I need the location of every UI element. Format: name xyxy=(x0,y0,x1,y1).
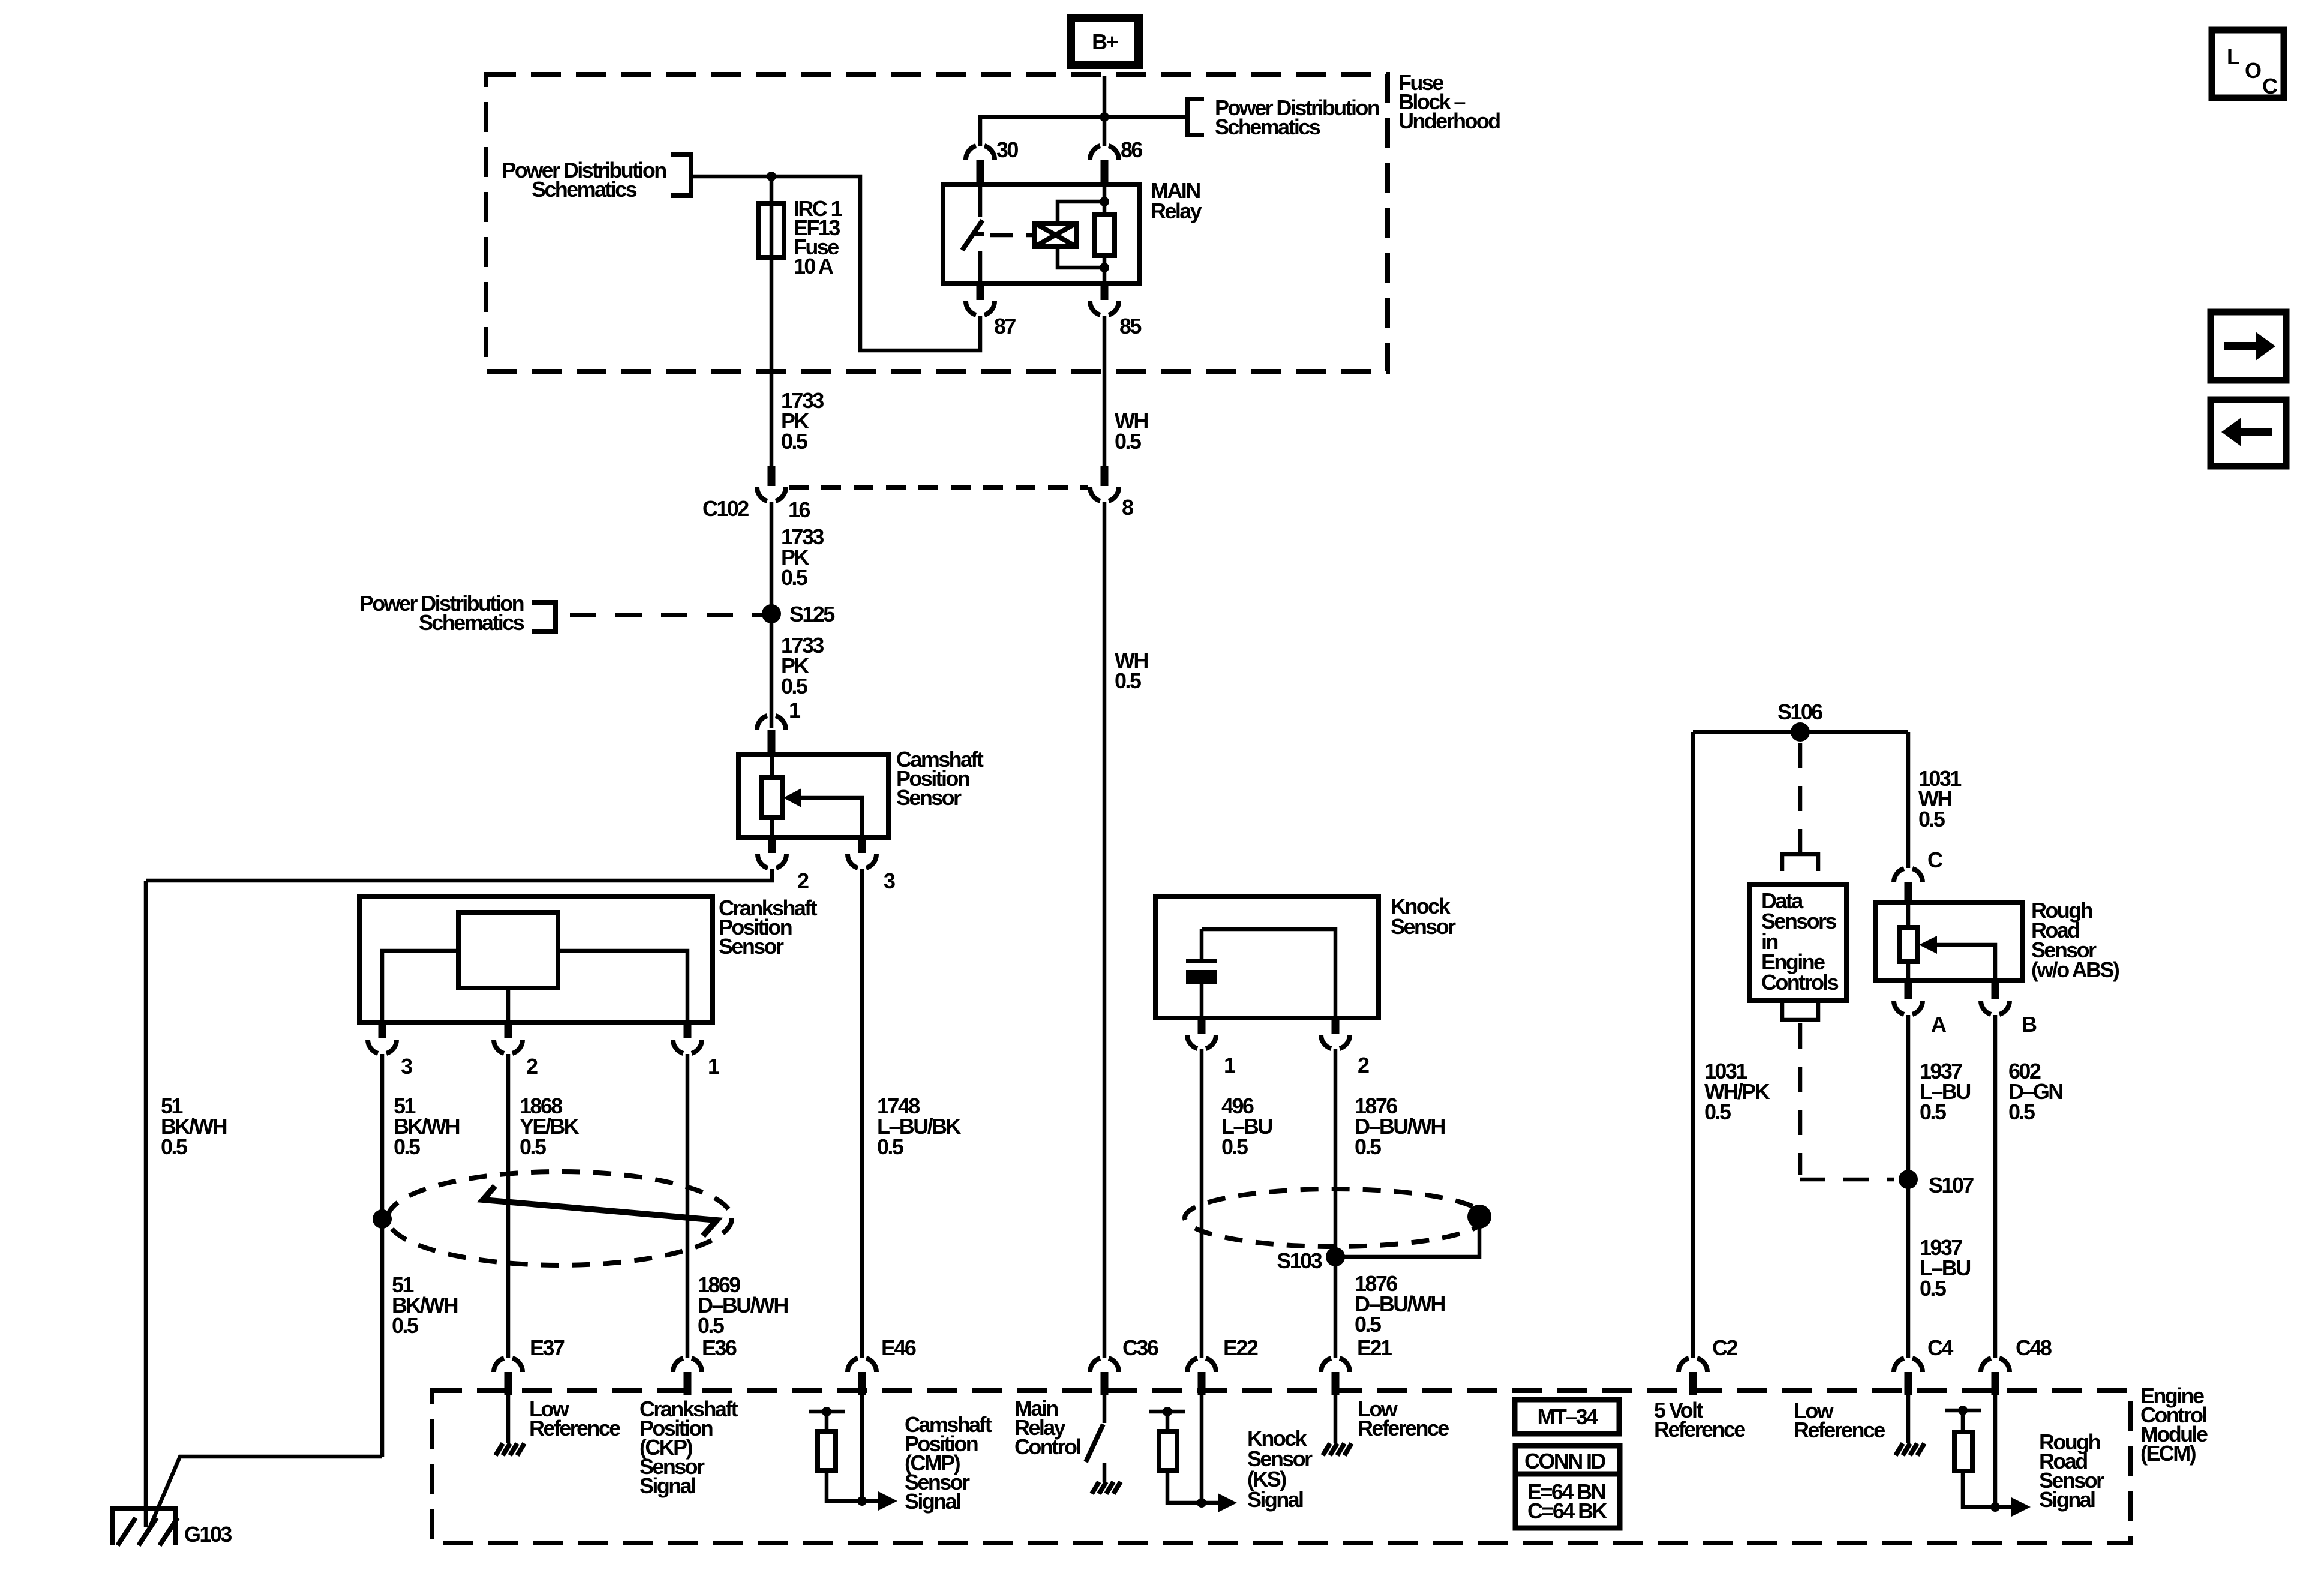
svg-text:B+: B+ xyxy=(1092,29,1118,54)
twisted pair zigzag arrow CKP xyxy=(483,1186,717,1236)
svg-text:Schematics: Schematics xyxy=(1215,115,1320,139)
svg-text:Relay: Relay xyxy=(1151,199,1202,223)
resistor rough road internal xyxy=(1906,902,1911,927)
legend left arrow box xyxy=(2211,400,2286,466)
svg-text:Schematics: Schematics xyxy=(419,610,524,635)
bracket data sensors top xyxy=(1782,854,1818,871)
svg-text:3: 3 xyxy=(884,869,895,893)
pin 3 connector camshaft xyxy=(858,837,866,853)
pin A connector rough road xyxy=(1905,980,1912,999)
ECM dashed border xyxy=(432,1391,2131,1543)
pin 16 of C102 xyxy=(768,466,776,486)
wire junction to right bracket xyxy=(1104,115,1187,119)
wire CKP internal middle xyxy=(506,988,511,1023)
splice S103 xyxy=(1326,1247,1345,1266)
svg-text:C: C xyxy=(1927,848,1943,872)
svg-text:Reference: Reference xyxy=(1794,1418,1885,1442)
svg-text:S125: S125 xyxy=(789,602,835,626)
legend right arrow box xyxy=(2211,312,2286,380)
svg-text:Reference: Reference xyxy=(1358,1416,1449,1440)
svg-text:S107: S107 xyxy=(1929,1173,1974,1197)
fuse IRC 1 EF13 10A xyxy=(758,203,784,257)
svg-text:0.5: 0.5 xyxy=(781,674,808,698)
bracket data sensors bottom xyxy=(1782,1003,1818,1020)
battery feed B+ symbol xyxy=(1071,18,1139,65)
arrow KS signal xyxy=(1202,1501,1219,1505)
relay switch contact xyxy=(978,184,983,217)
ECM internal pullup E46 xyxy=(860,1395,864,1501)
fuse block underhood dashed border xyxy=(486,74,1388,371)
pin 2 connector CKP xyxy=(505,1023,512,1038)
pin 86 connector xyxy=(1103,117,1107,146)
svg-text:Reference: Reference xyxy=(529,1416,620,1440)
wire 1031 WH to rough road sensor xyxy=(1906,732,1911,868)
svg-text:0.5: 0.5 xyxy=(1355,1134,1382,1159)
ground G103 xyxy=(110,1506,178,1545)
svg-text:E37: E37 xyxy=(530,1335,565,1360)
svg-text:0.5: 0.5 xyxy=(1221,1134,1248,1159)
pin 1 connector camshaft sensor xyxy=(757,716,786,730)
svg-text:Control: Control xyxy=(1014,1434,1080,1459)
svg-text:Controls: Controls xyxy=(1761,970,1839,995)
pin 2 connector knock xyxy=(1332,1018,1340,1034)
svg-text:S103: S103 xyxy=(1277,1248,1322,1273)
wire CKP pin3 51 BK/WH xyxy=(380,1054,385,1457)
svg-text:0.5: 0.5 xyxy=(394,1134,421,1159)
svg-text:Schematics: Schematics xyxy=(532,177,637,202)
ECM internal ground E37 xyxy=(506,1395,511,1443)
svg-text:Sensor: Sensor xyxy=(896,785,962,810)
wire dashed to S125 xyxy=(570,613,762,617)
svg-text:8: 8 xyxy=(1122,495,1133,520)
svg-text:10 A: 10 A xyxy=(794,254,834,278)
wire 51 BK/WH left run to G103 xyxy=(144,881,148,1527)
svg-text:S106: S106 xyxy=(1777,700,1822,724)
pin C connector rough road xyxy=(1894,869,1923,882)
svg-text:O: O xyxy=(2245,58,2261,83)
reference box MT-34 xyxy=(1515,1400,1619,1434)
pin C4 connector xyxy=(1894,1358,1923,1372)
sensor Knock Sensor box xyxy=(1155,896,1379,1018)
svg-text:Signal: Signal xyxy=(905,1489,960,1514)
svg-text:G103: G103 xyxy=(184,1522,232,1547)
svg-text:CONN ID: CONN ID xyxy=(1524,1449,1605,1473)
knock element xyxy=(1186,959,1217,963)
pin 87 connector xyxy=(977,283,984,300)
wire 86 pin inside relay xyxy=(1103,184,1107,215)
splice S125 xyxy=(762,604,781,623)
svg-text:0.5: 0.5 xyxy=(161,1134,188,1159)
wire S103 to E21 xyxy=(1334,1257,1338,1358)
svg-text:16: 16 xyxy=(788,497,810,522)
svg-text:0.5: 0.5 xyxy=(1920,1276,1947,1301)
node fuse junction dot xyxy=(767,172,776,181)
svg-text:Reference: Reference xyxy=(1654,1417,1745,1442)
pin 1 connector CKP xyxy=(684,1023,692,1038)
svg-text:(ECM): (ECM) xyxy=(2140,1441,2196,1466)
svg-text:(w/o ABS): (w/o ABS) xyxy=(2031,957,2119,982)
svg-text:0.5: 0.5 xyxy=(1704,1100,1731,1124)
svg-text:0.5: 0.5 xyxy=(392,1313,419,1338)
node coil bottom junction xyxy=(1100,263,1109,272)
svg-text:Signal: Signal xyxy=(2039,1487,2095,1512)
wire camshaft pin2 low reference to left xyxy=(146,869,772,881)
wire knock internal loop xyxy=(1202,929,1335,1018)
wire pin3 to ground run xyxy=(150,1457,382,1527)
pin B connector rough road xyxy=(1992,980,1999,999)
svg-text:0.5: 0.5 xyxy=(1115,668,1142,693)
svg-text:30: 30 xyxy=(996,137,1018,162)
arrow rough road wiper xyxy=(1936,945,1995,980)
wire 1876 D-BU/WH to S103 xyxy=(1334,1049,1338,1257)
svg-text:87: 87 xyxy=(994,314,1016,338)
svg-text:0.5: 0.5 xyxy=(1918,807,1945,831)
connector C102 dashed line xyxy=(789,485,1088,490)
svg-text:1: 1 xyxy=(1224,1053,1236,1077)
pin 30 connector xyxy=(966,146,995,160)
twisted pair ellipse CKP xyxy=(388,1172,732,1265)
wire coil top to 86 wire xyxy=(1058,202,1104,223)
pin C48 connector xyxy=(1981,1358,2010,1372)
sensor Rough Road Sensor box xyxy=(1876,902,2022,980)
node splice dot on pin3 wire xyxy=(373,1209,392,1229)
svg-text:0.5: 0.5 xyxy=(877,1134,904,1159)
svg-text:E46: E46 xyxy=(881,1335,916,1360)
svg-text:L: L xyxy=(2227,44,2239,69)
svg-text:0.5: 0.5 xyxy=(1355,1312,1382,1337)
svg-text:Signal: Signal xyxy=(1247,1487,1303,1512)
bracket Power Distribution Schematics (left) xyxy=(671,155,691,196)
svg-text:MT–34: MT–34 xyxy=(1537,1404,1598,1429)
splice S107 xyxy=(1899,1170,1918,1189)
pin C2 connector xyxy=(1679,1358,1707,1372)
svg-text:2: 2 xyxy=(797,869,809,893)
wire CKP pin1 1869 D-BU/WH to E36 xyxy=(686,1054,690,1358)
svg-text:0.5: 0.5 xyxy=(520,1134,547,1159)
node shield dot knock xyxy=(1467,1205,1491,1229)
arrow rough road signal xyxy=(1995,1505,2013,1509)
pin E37 connector xyxy=(494,1358,523,1372)
node coil top junction xyxy=(1100,197,1109,206)
svg-text:85: 85 xyxy=(1119,314,1142,338)
bracket Power Distribution Schematics (S125) xyxy=(532,602,556,632)
svg-text:Signal: Signal xyxy=(639,1473,695,1498)
ECM internal ground E21 xyxy=(1334,1395,1338,1443)
node junction B+ dot xyxy=(1100,112,1109,122)
svg-text:C=64 BK: C=64 BK xyxy=(1527,1499,1607,1523)
wire 1733 PK from C102 to S125 xyxy=(770,502,774,728)
svg-text:0.5: 0.5 xyxy=(1115,429,1142,454)
ECM internal pullup C48 xyxy=(1993,1395,1998,1507)
wire B+ down to junction xyxy=(1103,76,1107,117)
ECM internal ground C4 xyxy=(1906,1395,1911,1443)
arrow camshaft wiper xyxy=(800,798,862,837)
bracket Power Distribution Schematics (top right) xyxy=(1187,99,1204,135)
legend LOC box xyxy=(2212,30,2284,98)
relay coil box xyxy=(1035,223,1076,247)
svg-text:2: 2 xyxy=(526,1054,538,1079)
svg-text:1: 1 xyxy=(789,698,801,722)
wire 1937 L-BU pin A to S107 xyxy=(1906,1015,1911,1358)
reference box CONN ID xyxy=(1515,1446,1620,1528)
wire CKP internal left xyxy=(382,951,458,1023)
resistor camshaft internal xyxy=(770,755,774,778)
wire S106 horizontal xyxy=(1693,730,1908,734)
svg-text:3: 3 xyxy=(401,1054,412,1079)
svg-text:0.5: 0.5 xyxy=(1920,1100,1947,1124)
twisted pair ellipse knock xyxy=(1185,1189,1485,1247)
svg-text:C4: C4 xyxy=(1927,1335,1953,1360)
pin 2 connector camshaft xyxy=(768,837,776,853)
wire fuse vertical xyxy=(770,176,774,466)
wire 1031 WH/PK to C2 xyxy=(1691,732,1695,1358)
arrow CMP signal xyxy=(862,1499,879,1503)
svg-text:Sensor: Sensor xyxy=(1391,914,1456,939)
wire junction to pin 30 branch xyxy=(980,117,1104,146)
svg-text:C2: C2 xyxy=(1712,1335,1737,1360)
svg-text:A: A xyxy=(1931,1012,1947,1037)
wire coil bottom to 85 wire xyxy=(1058,247,1104,268)
pin E21 connector xyxy=(1321,1358,1350,1372)
svg-text:E36: E36 xyxy=(702,1335,737,1360)
svg-text:Sensor: Sensor xyxy=(719,934,784,959)
pin 8 of C102 xyxy=(1103,316,1107,466)
pin 85 connector xyxy=(1101,283,1109,300)
svg-text:C36: C36 xyxy=(1122,1335,1158,1360)
svg-text:C102: C102 xyxy=(702,496,749,521)
svg-text:C: C xyxy=(2262,74,2278,98)
wire WH from C102 pin8 to C36 xyxy=(1103,502,1107,1358)
pin 3 connector CKP xyxy=(379,1023,386,1038)
box Data Sensors in Engine Controls xyxy=(1750,884,1846,1001)
sensor Camshaft Position Sensor box xyxy=(738,755,888,837)
resistor relay internal xyxy=(1094,215,1115,256)
wire dashed data sensors to S107 xyxy=(1798,1023,1803,1175)
svg-text:Underhood: Underhood xyxy=(1398,109,1500,133)
CKP inner element box xyxy=(458,912,558,988)
svg-text:0.5: 0.5 xyxy=(781,565,808,590)
pin 1 connector knock xyxy=(1198,1018,1206,1034)
ECM internal pullup E22 xyxy=(1200,1395,1204,1503)
pin E46 connector xyxy=(848,1358,876,1372)
wire 496 L-BU to E22 xyxy=(1200,1049,1204,1358)
ECM internal switch C36 xyxy=(1103,1395,1107,1423)
wire shield to S103 xyxy=(1335,1217,1479,1257)
svg-text:E21: E21 xyxy=(1357,1335,1392,1360)
relay linkage dashed xyxy=(990,233,1035,238)
svg-text:2: 2 xyxy=(1358,1053,1369,1077)
svg-text:0.5: 0.5 xyxy=(2008,1100,2035,1124)
wire CKP pin2 1868 YE/BK to E37 xyxy=(506,1054,511,1358)
sensor Crankshaft Position Sensor box xyxy=(359,897,713,1023)
svg-text:C48: C48 xyxy=(2016,1335,2052,1360)
wire dashed S106 to data sensors xyxy=(1798,743,1803,852)
svg-text:0.5: 0.5 xyxy=(698,1313,725,1338)
svg-text:86: 86 xyxy=(1121,137,1142,162)
svg-text:E22: E22 xyxy=(1223,1335,1258,1360)
pin E36 connector xyxy=(673,1358,702,1372)
pin C36 connector xyxy=(1090,1358,1119,1372)
wire CKP internal right xyxy=(558,951,687,1023)
svg-text:1: 1 xyxy=(708,1054,720,1079)
wire 602 D-GN pin B to C48 xyxy=(1993,1015,1998,1358)
svg-text:0.5: 0.5 xyxy=(781,429,808,454)
wire camshaft pin3 CMP signal to E46 xyxy=(860,869,864,1358)
pin E22 connector xyxy=(1187,1358,1216,1372)
relay MAIN Relay box xyxy=(943,184,1139,283)
wire pin 87 to fuse branch xyxy=(693,176,980,350)
svg-text:B: B xyxy=(2022,1012,2037,1037)
